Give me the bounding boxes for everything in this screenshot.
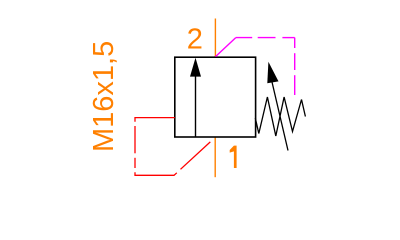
- flow path arrow shaft: [195, 75, 197, 138]
- drain line top horizontal (red): [135, 118, 175, 122]
- pilot line horizontal dash 3: [282, 37, 294, 39]
- pilot line vertical dash 2: [294, 53, 296, 70]
- svg-text:M16x1,5: M16x1,5: [88, 41, 120, 152]
- adjustment arrow shaft: [272, 82, 288, 151]
- valve body (square): [175, 57, 256, 137]
- svg-text:2: 2: [187, 24, 203, 56]
- pilot line vertical dash 3: [294, 75, 296, 95]
- port 1 line: [214, 137, 216, 177]
- pilot line horizontal dash 2: [258, 37, 276, 39]
- pilot line vertical dash 1: [294, 38, 296, 48]
- flow path arrowhead: [190, 58, 201, 77]
- pilot line diagonal (magenta): [216, 38, 236, 57]
- drain line bottom horizontal: [135, 172, 177, 175]
- port 2 line: [214, 19, 216, 58]
- port 1 label: [230, 146, 237, 168]
- drain line vertical dash 1: [134, 126, 136, 153]
- pilot line horizontal dash 1: [236, 37, 252, 39]
- adjustment arrowhead: [267, 62, 278, 83]
- drain line diagonal dash: [181, 142, 211, 169]
- drain line vertical dash 2: [134, 158, 136, 168]
- spring (zigzag): [255, 97, 305, 136]
